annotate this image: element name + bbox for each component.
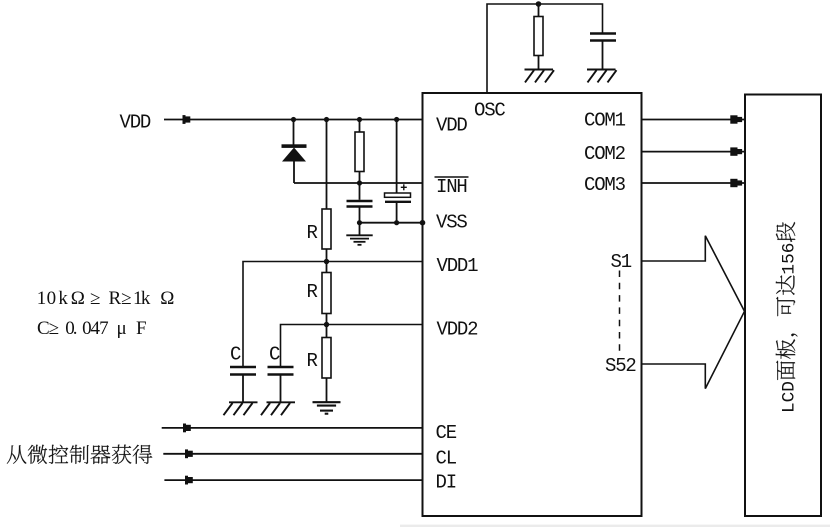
- svg-text:OSC: OSC: [474, 100, 505, 122]
- svg-text:10kΩ≥R≥1kΩ: 10kΩ≥R≥1kΩ: [37, 288, 175, 309]
- svg-text:156: 156: [780, 243, 800, 275]
- svg-text:VSS: VSS: [436, 212, 467, 234]
- svg-text:DI: DI: [436, 472, 456, 494]
- svg-text:COM2: COM2: [584, 143, 626, 165]
- svg-text:CL: CL: [436, 447, 457, 469]
- svg-text:INH: INH: [436, 176, 467, 198]
- svg-text:R: R: [307, 350, 318, 372]
- svg-text:COM3: COM3: [584, 174, 626, 196]
- svg-text:VDD: VDD: [436, 115, 467, 137]
- svg-text:VDD1: VDD1: [437, 255, 479, 277]
- svg-text:S52: S52: [605, 355, 636, 377]
- svg-text:R: R: [307, 281, 318, 303]
- svg-text:C≥0.047μF: C≥0.047μF: [37, 318, 147, 339]
- svg-text:CE: CE: [436, 422, 457, 444]
- svg-text:VDD2: VDD2: [437, 318, 479, 340]
- svg-text:C: C: [269, 344, 280, 366]
- svg-text:COM1: COM1: [584, 109, 626, 131]
- svg-text:VDD: VDD: [120, 111, 151, 133]
- svg-text:R: R: [307, 222, 318, 244]
- svg-text:LCD: LCD: [780, 381, 800, 413]
- svg-text:C: C: [230, 344, 241, 366]
- svg-text:S1: S1: [611, 251, 632, 273]
